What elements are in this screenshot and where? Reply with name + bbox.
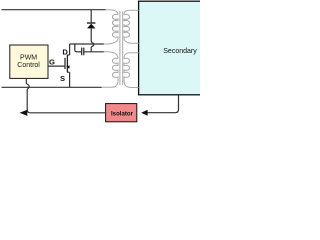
diode D1 clamp pointing up: [87, 23, 95, 28]
transformer T1 primary lower winding: [102, 52, 119, 88]
wire diode anode down with hop over drain line: [91, 28, 94, 52]
transformer T1 primary upper winding: [104, 10, 118, 44]
wire drain node to primary winding: [70, 43, 104, 45]
svg-text:D: D: [62, 47, 68, 56]
isolator block: [106, 104, 137, 122]
wire source down to bottom rail: [69, 72, 71, 87]
wire top rail VIN: [2, 9, 106, 11]
arrowhead feedback into PWM Control: [20, 110, 28, 116]
channel bar: [66, 55, 68, 73]
transistor Q1 N-MOSFET: [65, 44, 70, 87]
wire secondary block down to isolator: [147, 95, 179, 113]
wire diode cathode to top rail: [90, 10, 92, 23]
arrowhead into isolator: [141, 110, 147, 116]
PWM Control block: [10, 45, 48, 78]
wire drain up to drain node: [69, 44, 71, 55]
transformer T1 secondary upper winding: [124, 10, 139, 43]
capacitor C1 clamp plates: [82, 48, 84, 56]
gate bar: [64, 58, 66, 69]
transformer T1 secondary lower winding: [124, 53, 139, 88]
svg-text:Secondary: Secondary: [163, 48, 197, 55]
svg-text:G: G: [49, 57, 55, 66]
svg-text:S: S: [60, 74, 65, 83]
svg-text:PWM: PWM: [20, 55, 37, 62]
svg-text:Isolator: Isolator: [111, 110, 134, 117]
secondary block: [139, 1, 223, 95]
body arrow: [68, 66, 71, 68]
wire branch down to clamp capacitor: [75, 44, 77, 52]
wire clamp line left of capacitor: [76, 51, 81, 53]
drain stub: [67, 54, 69, 56]
svg-text:Control: Control: [17, 62, 40, 69]
transformer T1 core bars: [120, 11, 123, 85]
wire gate from PWM Control: [48, 65, 65, 67]
wire bottom rail primary return: [2, 86, 103, 88]
wire clamp line right of capacitor to diode anode: [84, 51, 104, 53]
source stub: [67, 71, 69, 73]
wire feedback from isolator to PWM Control with hop over bottom rail: [26, 79, 106, 113]
